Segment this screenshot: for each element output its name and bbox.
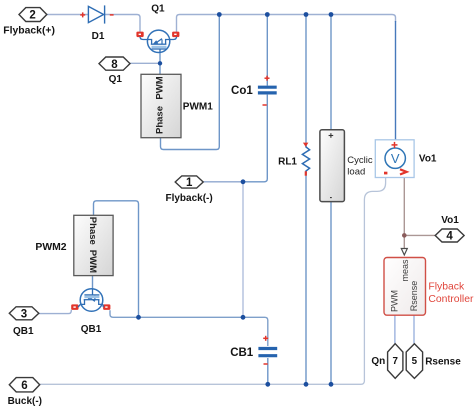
port 6: [9, 378, 39, 392]
RL1 bottom terminal marker: [305, 171, 307, 175]
svg-text:D1: D1: [92, 31, 105, 42]
wire controller Rsense to port5: [413, 315, 415, 343]
svg-text:PWM: PWM: [155, 76, 166, 99]
port 7: [388, 344, 403, 379]
svg-text:QB1: QB1: [81, 324, 102, 335]
svg-text:PWM1: PWM1: [183, 101, 213, 112]
junction node A: [241, 179, 246, 184]
block cyclic load: [320, 130, 345, 202]
wire PWM1 bottom loop up to bus: [161, 15, 220, 150]
svg-text:PWM: PWM: [390, 290, 400, 312]
wire node A down to mid rail: [242, 182, 244, 317]
wire bus drop into Vo1 plus: [395, 21, 397, 149]
svg-text:5: 5: [412, 356, 418, 367]
junction ground bus at CB1: [265, 382, 270, 387]
junction mid rail at node A column: [241, 315, 246, 320]
svg-text:1: 1: [186, 177, 193, 189]
svg-text:RL1: RL1: [278, 157, 297, 168]
capacitor CB1: [258, 349, 277, 356]
junction on bus at PWM1 loop: [217, 12, 222, 17]
minus marker at CB1: [264, 363, 268, 365]
port 2: [19, 8, 47, 22]
QB1 right terminal marker: [103, 304, 111, 310]
junction on bus at RL1: [304, 12, 309, 17]
svg-text:Flyback: Flyback: [428, 282, 465, 293]
svg-text:6: 6: [21, 380, 27, 392]
junction on bus at Co1: [265, 12, 270, 17]
svg-text:Phase: Phase: [87, 217, 98, 245]
wire Vo1 measurement signal down: [403, 178, 405, 248]
wire cyclic load bottom to ground bus: [330, 202, 332, 385]
wire bus to cyclic load top: [330, 15, 332, 130]
svg-text:load: load: [347, 167, 365, 178]
svg-text:CB1: CB1: [230, 347, 254, 359]
svg-text:Cyclic: Cyclic: [347, 155, 373, 166]
diode D1: [88, 5, 104, 23]
transistor Q1: [147, 30, 170, 53]
QB1 left terminal marker: [71, 304, 80, 310]
Q1 drain terminal marker: [136, 32, 147, 40]
svg-text:Q1: Q1: [151, 3, 165, 14]
junction ground bus at cyclic load: [329, 382, 334, 387]
svg-text:V: V: [391, 151, 400, 166]
port 1: [175, 176, 203, 189]
label Flyback Controller: [428, 282, 474, 305]
svg-text:2: 2: [29, 10, 35, 22]
svg-text:meas: meas: [400, 259, 410, 282]
svg-text:Rsense: Rsense: [425, 356, 461, 367]
svg-text:Q1: Q1: [109, 74, 123, 85]
svg-text:Rsense: Rsense: [409, 281, 419, 312]
resistor RL1: [302, 144, 309, 175]
Q1 source terminal marker: [170, 32, 179, 40]
wire port8 to gate node: [130, 62, 160, 64]
wire RL1 bottom to ground bus: [305, 175, 307, 385]
capacitor Co1: [258, 87, 277, 93]
svg-text:PWM2: PWM2: [35, 242, 66, 253]
svg-text:8: 8: [111, 59, 118, 71]
svg-text:4: 4: [446, 231, 453, 243]
port 4: [435, 229, 464, 243]
wire Q1 gate: [159, 53, 161, 75]
junction on bus at cyclic load: [329, 12, 334, 17]
svg-text:Controller: Controller: [428, 294, 474, 305]
wire controller PWM to port7: [394, 315, 396, 343]
svg-text:Flyback(+): Flyback(+): [3, 25, 55, 36]
plus marker at CB1: [263, 336, 268, 341]
svg-text:Vo1: Vo1: [441, 215, 459, 226]
wire bus to RL1 top: [305, 15, 307, 144]
block PWM1: [141, 74, 181, 137]
junction mid rail at PWM2 loop: [136, 315, 141, 320]
wire measurement node to port4: [404, 234, 435, 236]
junction gate node: [158, 61, 162, 65]
voltage sensor Vo1: [375, 140, 414, 178]
minus marker at Co1: [263, 104, 267, 106]
wire PWM2 top loop to mid rail: [94, 201, 139, 317]
port 3: [9, 307, 39, 321]
square marker at Vo1 negative: [384, 172, 387, 175]
wire QB1 source to CB1 top (mid rail): [110, 310, 268, 346]
wire port1 to node A: [203, 181, 243, 183]
plus marker at Vo1: [392, 142, 398, 148]
minus marker at D1 cathode: [110, 14, 114, 16]
junction ground bus at RL1: [304, 382, 309, 387]
svg-text:Vo1: Vo1: [419, 154, 437, 165]
wire bus to Co1 top: [266, 15, 268, 86]
svg-text:Qn: Qn: [371, 356, 385, 367]
port 8: [99, 57, 130, 71]
arrow marker at Vo1 output: [400, 169, 407, 174]
RL1 top terminal marker: [303, 143, 309, 147]
plus marker at Co1: [265, 76, 270, 81]
svg-text:PWM: PWM: [87, 250, 98, 273]
svg-text:Buck(-): Buck(-): [8, 396, 42, 407]
wire port3 to QB1: [39, 310, 71, 314]
block PWM2: [74, 215, 113, 275]
wire ground bus from port6 to Vo1 return: [40, 175, 386, 385]
wire PWM2 bottom to QB1 gate: [92, 276, 94, 289]
wire Co1 bottom to node A: [243, 95, 267, 182]
wire CB1 bottom to ground bus: [267, 358, 269, 384]
wire diode to Q1 drain: [105, 15, 140, 33]
svg-text:QB1: QB1: [13, 326, 34, 337]
input arrow into controller: [401, 249, 407, 256]
transistor QB1: [80, 289, 103, 312]
svg-text:7: 7: [392, 356, 398, 367]
svg-text:Flyback(-): Flyback(-): [165, 193, 212, 204]
wire port2 to diode: [47, 14, 88, 16]
label Cyclic load: [347, 155, 373, 178]
svg-text:Co1: Co1: [231, 85, 253, 97]
plus marker at D1 anode: [80, 12, 85, 17]
junction measurement node: [402, 233, 407, 238]
wire top bus from Q1 source to Vo1: [177, 15, 396, 33]
svg-text:3: 3: [21, 309, 27, 321]
block Flyback Controller U1: [384, 258, 426, 316]
wire Vo1 sensor negative lead: [387, 168, 395, 172]
svg-text:Phase: Phase: [155, 106, 166, 134]
port 5: [406, 344, 422, 379]
